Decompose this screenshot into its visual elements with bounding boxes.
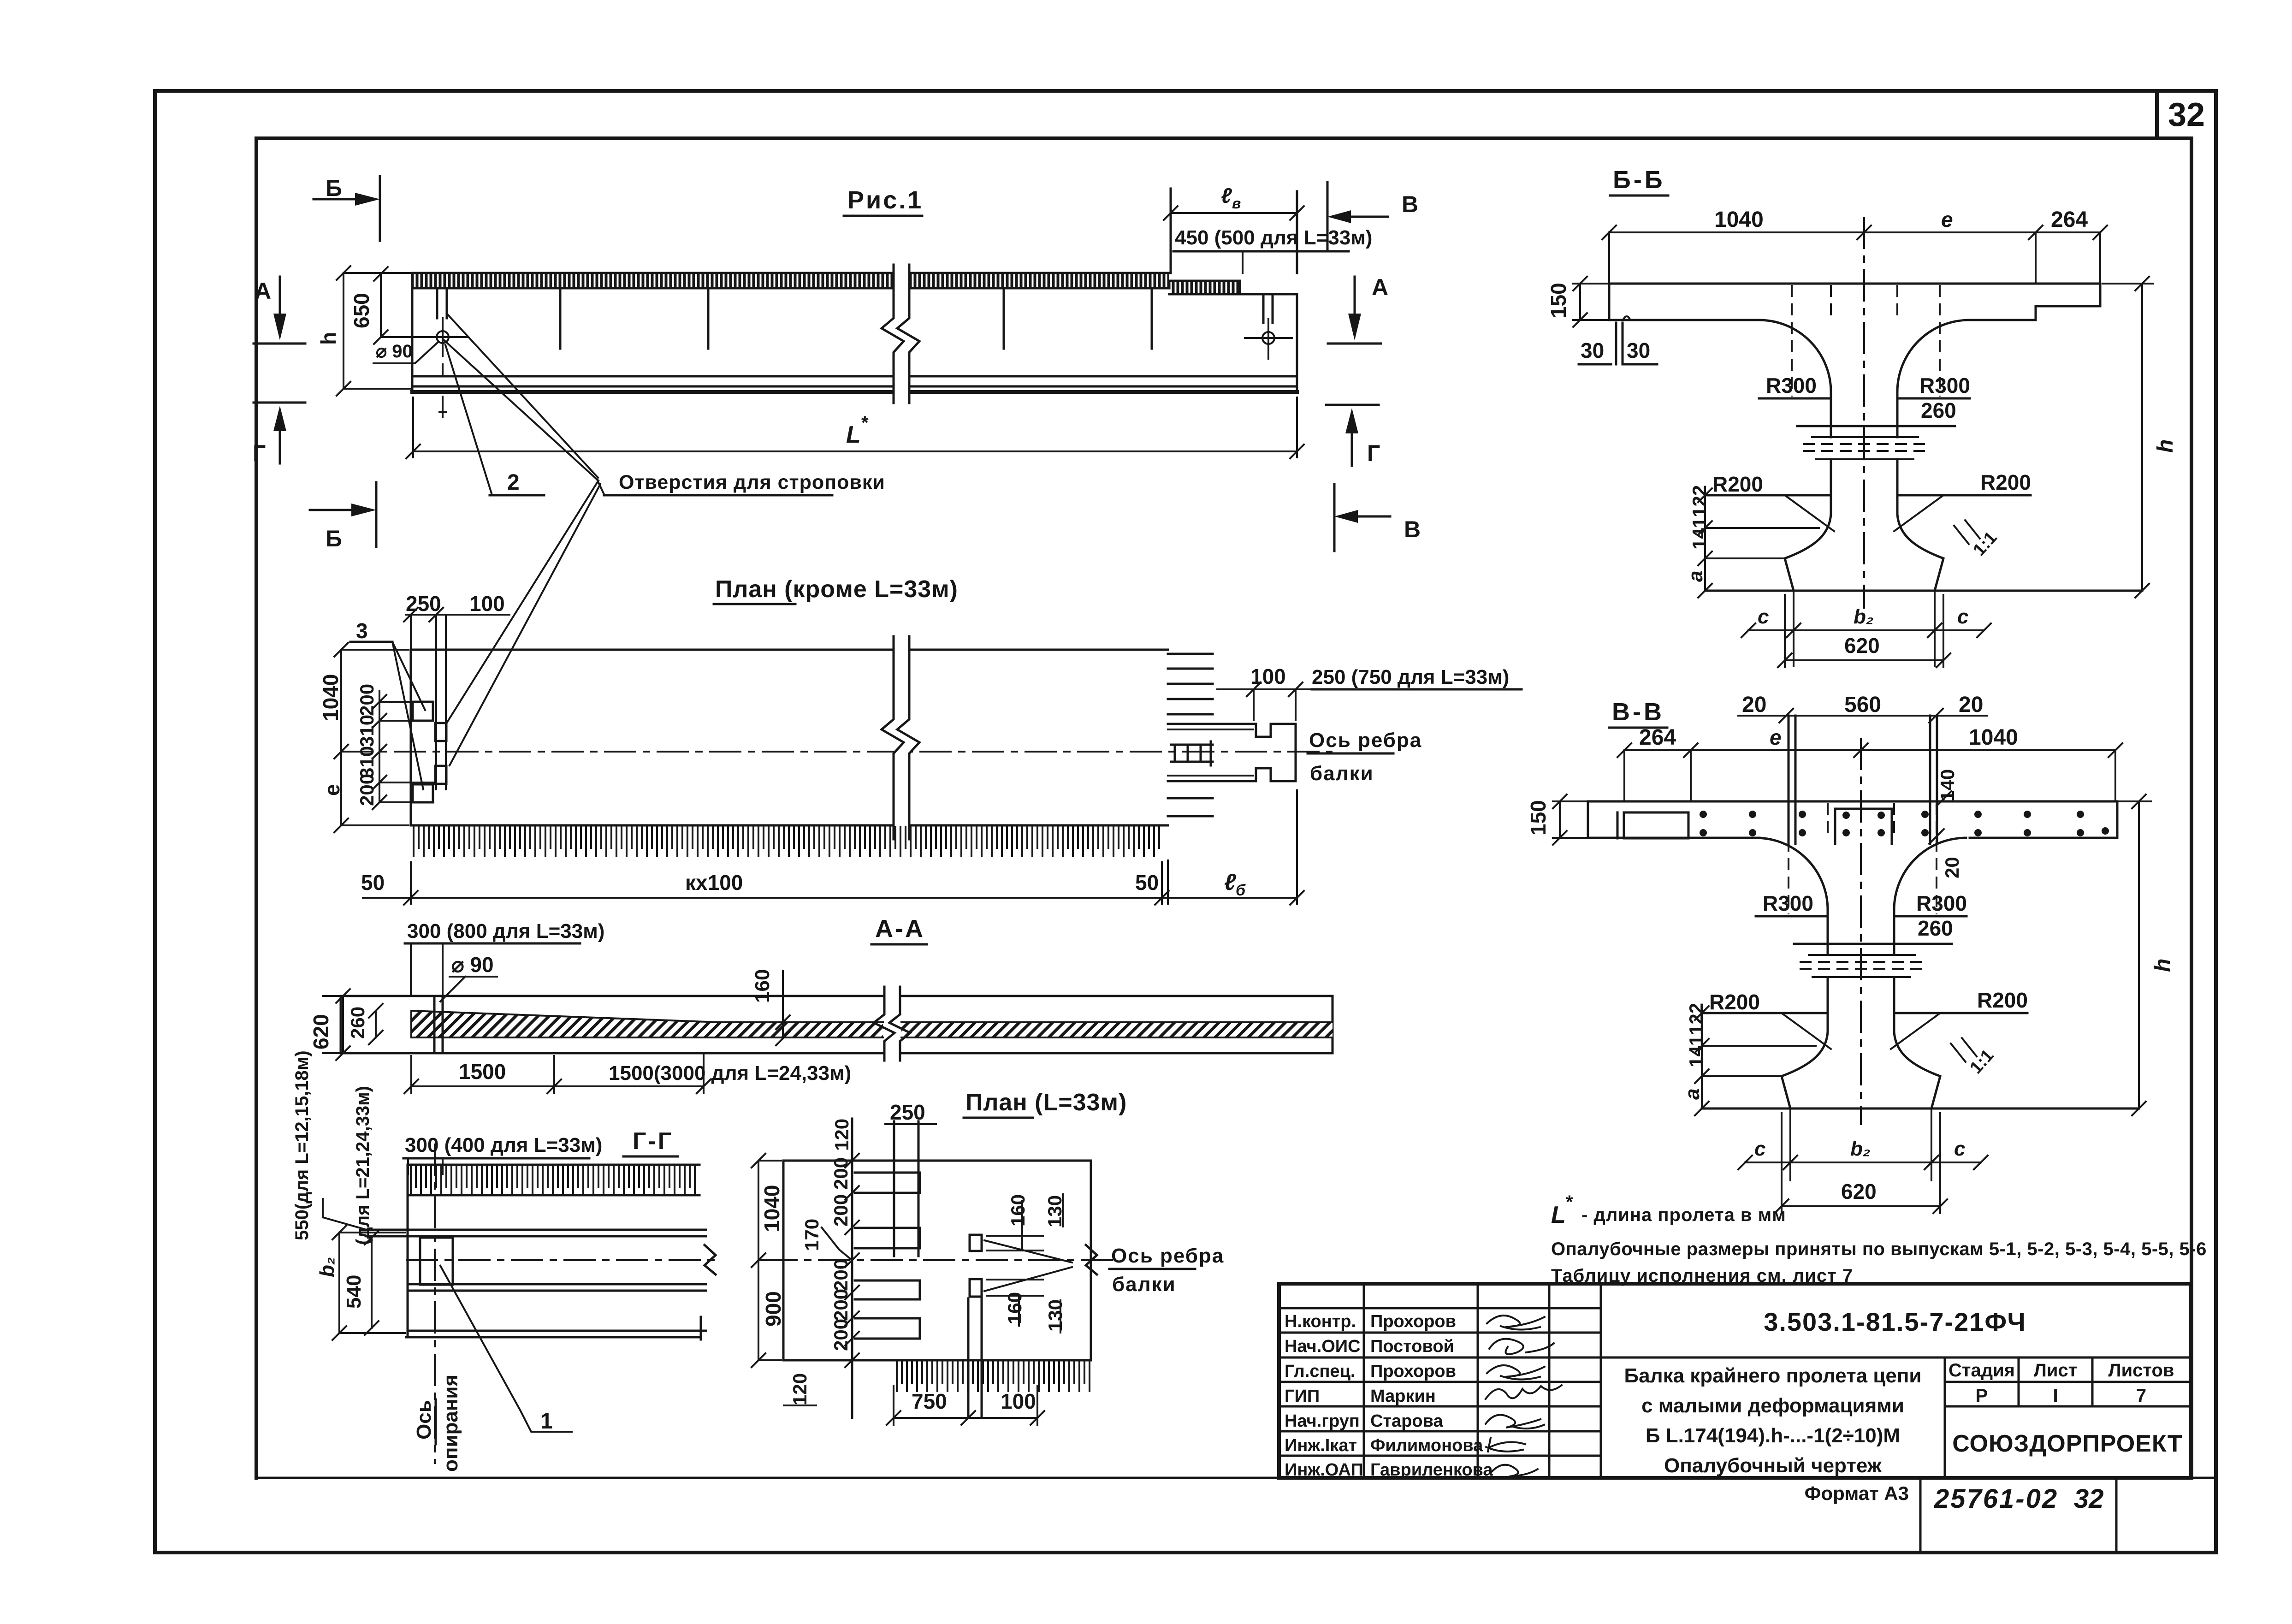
dim 50 kx100 50 lb bottom	[361, 790, 1304, 905]
svg-text:750: 750	[912, 1389, 947, 1413]
svg-text:264: 264	[1639, 725, 1676, 750]
svg-text:I: I	[2053, 1386, 2058, 1406]
svg-text:А: А	[1372, 274, 1388, 300]
A-A hole through slab	[434, 996, 443, 1053]
svg-text:План (кроме L=33м): План (кроме L=33м)	[715, 576, 958, 603]
svg-text:200: 200	[830, 1289, 852, 1321]
svg-text:*: *	[861, 413, 869, 433]
Fig.1 title	[844, 186, 923, 216]
svg-text:Г: Г	[1367, 440, 1380, 466]
svg-text:ℓ: ℓ	[1224, 869, 1237, 895]
svg-text:Листов: Листов	[2108, 1360, 2174, 1381]
svg-text:Рис.1: Рис.1	[847, 186, 923, 214]
plan break line	[882, 636, 919, 839]
svg-text:620: 620	[1844, 634, 1880, 658]
svg-text:1040: 1040	[319, 674, 343, 721]
A-A hatched band tapering	[411, 1011, 1333, 1037]
V-V dim 150 left	[1526, 794, 1586, 845]
dia 90 label left	[373, 341, 438, 363]
svg-text:120: 120	[789, 1373, 811, 1405]
V-V slab outline	[1588, 801, 2117, 838]
plan centreline axis	[341, 751, 1333, 753]
drawing name block text	[1624, 1364, 1922, 1477]
handwritten inventory number 25761-02 32	[1934, 1484, 2104, 1514]
A-A dia90 label	[440, 953, 497, 1002]
plan right rebar stubs	[1168, 654, 1213, 816]
svg-text:Инж.Iкат: Инж.Iкат	[1285, 1436, 1357, 1455]
svg-text:Инж.ОАП: Инж.ОАП	[1285, 1460, 1363, 1480]
svg-text:2: 2	[507, 470, 520, 495]
plan33 small squares	[970, 1235, 982, 1297]
svg-text:Гл.спец.: Гл.спец.	[1285, 1362, 1355, 1381]
G-G bearing pad	[420, 1238, 453, 1285]
section marker B top-left	[314, 175, 380, 241]
note formwork sizes	[1551, 1239, 2207, 1259]
svg-text:Формат А3: Формат А3	[1805, 1482, 1909, 1504]
svg-text:L: L	[1551, 1202, 1566, 1228]
beam elevation stirrup marks	[560, 288, 1152, 349]
svg-text:1: 1	[540, 1409, 553, 1434]
B-B top dim 1040 e 264	[1602, 207, 2107, 284]
dim 450 (500 for L=33m)	[1171, 226, 1372, 273]
svg-text:3.503.1-81.5-7-21ФЧ: 3.503.1-81.5-7-21ФЧ	[1764, 1307, 2026, 1336]
svg-text:Р: Р	[1976, 1386, 1988, 1406]
svg-text:⌀ 90: ⌀ 90	[376, 341, 413, 362]
svg-text:В: В	[1402, 191, 1418, 217]
svg-text:160: 160	[1007, 1194, 1029, 1227]
svg-text:250: 250	[406, 592, 441, 616]
svg-text:3: 3	[356, 619, 368, 643]
svg-text:- длина пролета в мм: - длина пролета в мм	[1581, 1205, 1786, 1225]
svg-text:b₂: b₂	[1854, 605, 1874, 628]
svg-text:1500(3000 для L=24,33м): 1500(3000 для L=24,33м)	[609, 1062, 851, 1085]
svg-text:Стадия: Стадия	[1948, 1360, 2015, 1381]
svg-text:h: h	[2150, 959, 2175, 972]
plan outline rectangle	[411, 650, 1168, 825]
svg-text:32: 32	[2074, 1484, 2104, 1514]
svg-text:L: L	[846, 421, 861, 448]
svg-text:300 (800 для L=33м): 300 (800 для L=33м)	[407, 920, 604, 942]
svg-text:1500: 1500	[459, 1060, 506, 1084]
section marker G left	[253, 403, 305, 466]
svg-text:160: 160	[1004, 1292, 1025, 1324]
svg-text:1040: 1040	[760, 1185, 784, 1232]
title block signature table	[1279, 1284, 2191, 1478]
svg-text:900: 900	[761, 1291, 785, 1327]
svg-text:*: *	[1566, 1192, 1573, 1212]
svg-text:Прохоров: Прохоров	[1370, 1362, 1456, 1381]
section marker G right	[1326, 405, 1380, 466]
svg-text:Б-Б: Б-Б	[1613, 166, 1665, 194]
B-B bulb bottom line	[1705, 590, 2142, 592]
svg-text:Нач.груп: Нач.груп	[1285, 1411, 1360, 1431]
V-V dim 264 e 1040	[1617, 725, 2122, 801]
G-G section title	[623, 1128, 678, 1156]
signature table person names	[1370, 1312, 1493, 1480]
svg-text:250: 250	[890, 1100, 925, 1124]
svg-text:Б: Б	[326, 526, 342, 551]
svg-text:кх100: кх100	[685, 871, 743, 895]
svg-text:Ось ребра: Ось ребра	[1111, 1245, 1224, 1267]
plan33 axis label	[1109, 1245, 1224, 1296]
V-V bulb bottom line	[1702, 1108, 2139, 1110]
svg-text:Маркин: Маркин	[1370, 1387, 1436, 1406]
A-A dim 160	[751, 969, 811, 1045]
svg-text:Старова: Старова	[1370, 1411, 1443, 1431]
dim lv top right	[1164, 184, 1304, 273]
plan dim 250 100 top	[404, 592, 509, 789]
leader lines to hole labels	[443, 314, 604, 765]
svg-text:30: 30	[1627, 338, 1650, 362]
B-B dim 620	[1778, 595, 1950, 667]
A-A break zigzags	[874, 987, 910, 1061]
svg-text:c: c	[1954, 1138, 1965, 1160]
V-V dim 140 rotated	[1929, 769, 1958, 844]
V-V centreline	[1860, 738, 1862, 1125]
Plan title (except L=33m)	[714, 576, 958, 604]
svg-text:550(для L=12,15,18м): 550(для L=12,15,18м)	[292, 1050, 312, 1240]
svg-text:Н.контр.: Н.контр.	[1285, 1312, 1356, 1331]
svg-text:ГИП: ГИП	[1285, 1387, 1320, 1406]
svg-text:Прохоров: Прохоров	[1370, 1312, 1456, 1331]
svg-text:Опалубочные размеры приняты по: Опалубочные размеры приняты по выпускам …	[1551, 1239, 2207, 1259]
plan33 outline	[783, 1161, 1091, 1360]
svg-text:b₂: b₂	[1850, 1138, 1871, 1160]
B-B centreline	[1863, 217, 1865, 609]
svg-text:Гавриленкова: Гавриленкова	[1370, 1460, 1493, 1480]
svg-text:20: 20	[1941, 857, 1963, 878]
svg-text:25761-02: 25761-02	[1934, 1484, 2058, 1514]
section marker A left	[254, 277, 305, 344]
plan33 hole column verticals	[852, 1119, 918, 1418]
svg-text:100: 100	[1250, 664, 1286, 688]
B-B dim h right	[2102, 277, 2178, 598]
B-B section title	[1610, 166, 1668, 196]
svg-text:620: 620	[309, 1014, 333, 1049]
svg-text:1040: 1040	[1714, 207, 1764, 232]
svg-text:А-А: А-А	[875, 915, 925, 942]
svg-text:264: 264	[2051, 207, 2088, 232]
V-V dim h right	[2101, 794, 2175, 1115]
V-V 20 560 verticals through slab	[1789, 716, 1937, 844]
section marker B bottom-left	[310, 482, 376, 551]
svg-text:140: 140	[1937, 769, 1958, 801]
G-G left end bracket 550	[292, 1050, 373, 1245]
svg-text:32: 32	[2168, 96, 2205, 133]
plan33 chain dims 120 200 170 200	[784, 1119, 859, 1405]
note L* span length	[1551, 1192, 1786, 1228]
svg-text:Филимонова: Филимонова	[1370, 1436, 1483, 1455]
svg-text:e: e	[320, 784, 344, 796]
plan right end channel extension	[1168, 724, 1296, 781]
svg-text:h: h	[2153, 439, 2178, 453]
svg-text:260: 260	[347, 1007, 368, 1039]
A-A left dims 620 260	[309, 989, 383, 1060]
B-B 30 30 marks	[1579, 323, 1657, 364]
B-B slab outline	[1609, 284, 2100, 320]
B-B lower T profile	[1684, 285, 2031, 598]
plan33 160 130 dims upper	[984, 1194, 1072, 1262]
section marker V bottom-right	[1334, 484, 1421, 551]
svg-text:540: 540	[343, 1275, 365, 1309]
V-V lower T profile	[1681, 803, 2028, 1115]
plan left dim 1040 e	[319, 643, 409, 832]
svg-text:Постовой: Постовой	[1370, 1337, 1454, 1356]
svg-text:130: 130	[1044, 1195, 1066, 1227]
svg-text:СОЮЗДОРПРОЕКТ: СОЮЗДОРПРОЕКТ	[1952, 1430, 2182, 1457]
label 2	[490, 470, 544, 495]
V-V dim 620	[1775, 1113, 1947, 1213]
svg-text:100: 100	[1001, 1389, 1036, 1413]
svg-text:c: c	[1758, 605, 1769, 628]
svg-text:620: 620	[1841, 1179, 1877, 1203]
svg-text:20: 20	[1742, 693, 1766, 717]
svg-text:170: 170	[801, 1219, 823, 1251]
svg-text:150: 150	[1546, 283, 1570, 318]
axis label for plan	[1308, 729, 1422, 785]
G-G dim 300(400 for L=33m)	[403, 1134, 602, 1174]
A-A slab outline left part	[341, 996, 884, 1053]
svg-text:В: В	[1404, 516, 1421, 542]
svg-text:балки: балки	[1310, 762, 1374, 785]
plan left hole chain dims 200 310 310 200	[356, 684, 433, 809]
G-G axis of bearing	[413, 1144, 462, 1472]
svg-text:Нач.ОИС: Нач.ОИС	[1285, 1337, 1361, 1356]
svg-text:Б L.174(194).h-...-1(2÷10)М: Б L.174(194).h-...-1(2÷10)М	[1646, 1424, 1900, 1447]
svg-text:200: 200	[356, 684, 378, 716]
svg-text:h: h	[316, 332, 340, 345]
A-A section title	[871, 915, 927, 944]
svg-text:e: e	[1770, 725, 1782, 749]
svg-text:с малыми деформациями: с малыми деформациями	[1641, 1394, 1904, 1417]
beam elevation break line	[882, 265, 919, 403]
V-V rebar dots row bottom	[1700, 827, 2109, 836]
G-G centreline	[406, 1245, 719, 1274]
lifting hole left with crosshair	[417, 288, 468, 417]
svg-text:Лист: Лист	[2034, 1360, 2078, 1381]
svg-text:c: c	[1957, 605, 1968, 628]
svg-text:100: 100	[469, 592, 505, 616]
plan33 bottom comb hatch	[897, 1362, 1090, 1391]
svg-text:c: c	[1754, 1138, 1765, 1160]
page number box 32 (top right)	[2157, 91, 2205, 138]
svg-text:e: e	[1941, 207, 1953, 231]
svg-text:ℓ: ℓ	[1221, 184, 1232, 207]
lifting hole right with crosshair	[1245, 294, 1292, 359]
inner drawing frame	[256, 138, 2191, 1478]
svg-text:Б: Б	[326, 175, 342, 201]
A-A slab outline right part	[900, 996, 1333, 1053]
plan bottom comb hatch	[414, 827, 1159, 856]
plan33 left dims 1040 900	[752, 1154, 785, 1367]
plan right dim 100 250(750 for L=33m)	[1217, 664, 1522, 720]
A-A dim 300(800 for L=33m)	[405, 920, 604, 996]
svg-text:⌀ 90: ⌀ 90	[451, 953, 494, 977]
svg-text:Балка крайнего пролета цепи: Балка крайнего пролета цепи	[1624, 1364, 1922, 1387]
svg-text:200: 200	[830, 1194, 852, 1227]
G-G b2 540 dims	[316, 1226, 405, 1340]
svg-text:310: 310	[356, 715, 378, 747]
V-V joint block on slab	[1835, 809, 1892, 844]
svg-text:b₂: b₂	[316, 1257, 338, 1277]
note table reference	[1551, 1266, 1853, 1286]
dim L* bottom of elevation	[406, 397, 1304, 458]
plan33 dim 750 100	[887, 1386, 1044, 1425]
svg-text:120: 120	[831, 1119, 853, 1151]
svg-text:б: б	[1236, 882, 1246, 899]
V-V dim 20 rotated below slab	[1941, 857, 1963, 878]
svg-text:Ось ребра: Ось ребра	[1309, 729, 1422, 752]
V-V dim 20 560 20	[1738, 693, 1987, 723]
svg-text:200: 200	[356, 774, 378, 806]
beam elevation outline	[412, 273, 1297, 392]
plan ladder symbol at beam end	[1171, 741, 1213, 765]
svg-text:балки: балки	[1112, 1273, 1176, 1296]
section marker V top-right	[1327, 182, 1418, 251]
svg-text:Г: Г	[253, 440, 266, 466]
signature table role names	[1285, 1312, 1363, 1480]
svg-text:150: 150	[1526, 800, 1550, 836]
svg-text:160: 160	[751, 969, 774, 1003]
plan33 dim 250	[885, 1100, 936, 1124]
svg-text:310: 310	[356, 746, 378, 778]
svg-text:200: 200	[830, 1157, 852, 1190]
svg-text:50: 50	[361, 871, 385, 895]
stage/sheet cells	[1945, 1357, 2191, 1478]
signature squiggles	[1486, 1316, 1562, 1476]
document code 3.503.1-81.5-7-21ФЧ	[1764, 1307, 2026, 1336]
plan33 centreline	[765, 1245, 1116, 1274]
Plan L=33m title	[964, 1089, 1127, 1118]
bottom margin strip cells	[155, 1478, 2216, 1553]
svg-text:в: в	[1232, 195, 1241, 212]
svg-text:опирания: опирания	[439, 1375, 462, 1472]
beam elevation ribbed top band	[412, 273, 1169, 288]
svg-text:50: 50	[1135, 871, 1159, 895]
V-V rebar dots row top	[1700, 811, 2084, 819]
format A3 label	[1805, 1482, 1909, 1504]
svg-text:Г-Г: Г-Г	[633, 1128, 673, 1155]
svg-text:20: 20	[1959, 693, 1983, 717]
B-B dim 150	[1546, 277, 1607, 327]
svg-text:План (L=33м): План (L=33м)	[965, 1089, 1127, 1116]
plan33 160 130 dims lower	[984, 1267, 1072, 1333]
plan33 lower column pair	[968, 1298, 982, 1418]
svg-text:В-В: В-В	[1612, 698, 1664, 726]
label 3 with leaders	[350, 619, 425, 789]
svg-text:30: 30	[1581, 338, 1604, 362]
svg-text:450 (500 для L=33м): 450 (500 для L=33м)	[1175, 226, 1372, 249]
G-G leader label 1	[440, 1266, 572, 1434]
A-A bottom dims 1500 1500(3000)	[404, 1053, 851, 1093]
dim 650 left	[349, 267, 433, 344]
beam elevation right step band	[1169, 281, 1297, 294]
svg-text:7: 7	[2136, 1386, 2146, 1406]
G-G top comb hatch	[408, 1165, 699, 1195]
svg-text:Отверстия для строповки: Отверстия для строповки	[619, 471, 885, 493]
svg-text:Опалубочный чертеж: Опалубочный чертеж	[1664, 1454, 1882, 1477]
svg-text:А: А	[255, 278, 271, 304]
plan33 hole rectangles	[855, 1173, 920, 1339]
svg-text:Ось: Ось	[413, 1400, 435, 1440]
svg-text:250 (750 для L=33м): 250 (750 для L=33м)	[1312, 666, 1509, 688]
svg-text:(для L=21,24,33м): (для L=21,24,33м)	[353, 1086, 373, 1245]
svg-text:200: 200	[830, 1319, 852, 1351]
svg-text:560: 560	[1844, 693, 1881, 717]
svg-text:650: 650	[349, 293, 373, 328]
dim h left	[316, 266, 410, 396]
organization cell СОЮЗДОРПРОЕКТ	[1952, 1430, 2182, 1457]
section marker A right	[1328, 274, 1388, 344]
V-V section title	[1609, 698, 1667, 728]
B-B bottom dims c b2 c	[1741, 591, 1991, 666]
G-G body outline	[367, 1165, 706, 1340]
svg-text:130: 130	[1044, 1299, 1066, 1332]
svg-text:1040: 1040	[1969, 725, 2018, 750]
plan slinging holes (4 rectangles)	[413, 702, 446, 802]
label holes for slinging	[604, 471, 885, 495]
V-V bottom dims c b2 c	[1738, 1108, 1988, 1180]
